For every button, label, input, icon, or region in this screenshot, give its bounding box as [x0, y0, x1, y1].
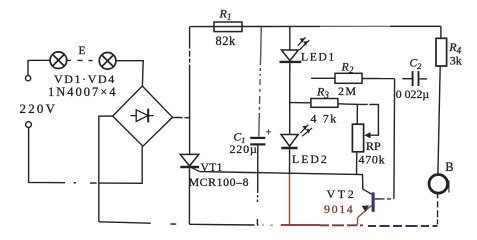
- svg-text:1N4007×4: 1N4007×4: [48, 85, 118, 99]
- wire R2 left lead (stub): [311, 77, 335, 79]
- lamp E1 (left bulb): [50, 52, 67, 69]
- LED1 light arrows: [298, 37, 309, 49]
- svg-text:220V: 220V: [20, 101, 58, 116]
- LED1: [280, 50, 302, 62]
- wire dashed base lead to RC node: [381, 198, 394, 200]
- bridge rectifier VD1-VD4 diamond: [113, 86, 173, 146]
- wire RP top lead: [356, 105, 358, 124]
- wire lamp E2 to bridge top: [116, 61, 143, 86]
- wire dashed vertical from top rail down to C1: [259, 27, 262, 137]
- wire C1 bottom down to rail: [257, 146, 259, 194]
- wire R4 bottom lead down to B: [438, 66, 440, 174]
- resistor R2: [335, 73, 362, 83]
- svg-text:3k: 3k: [450, 54, 462, 68]
- transistor VT2 base lead: [375, 198, 381, 200]
- buzzer B: [429, 175, 448, 194]
- wire R3 left lead to LED line: [290, 102, 311, 104]
- svg-text:B: B: [445, 160, 453, 174]
- wire left vertical x=190 from top corner down to VT1 anode: [189, 27, 191, 155]
- wire LED2 cathode down (dark part): [289, 149, 291, 174]
- svg-text:RP: RP: [366, 139, 381, 153]
- wire R3 right lead to node: [338, 103, 360, 106]
- svg-text:220µ: 220µ: [230, 142, 258, 156]
- svg-text:E: E: [79, 45, 86, 57]
- svg-text:LED1: LED1: [301, 50, 336, 64]
- wire VT1 cathode down to bottom rail: [188, 168, 190, 224]
- bottom rail blue dashes to B: [368, 225, 438, 227]
- svg-text:MCR100–8: MCR100–8: [189, 175, 250, 189]
- terminal 1: [26, 76, 31, 81]
- svg-text:+: +: [266, 127, 272, 138]
- svg-text:LED2: LED2: [292, 152, 329, 166]
- svg-text:9014: 9014: [324, 202, 354, 216]
- bottom rail middle solid segment: [189, 223, 254, 226]
- wire C2 left lead: [402, 78, 412, 80]
- lamp E2 (right bulb): [99, 53, 116, 70]
- wire R4 top lead: [440, 26, 442, 38]
- terminal 2: [26, 122, 32, 128]
- wire VT1 gate to VT2 collector (long horizontal): [200, 172, 372, 195]
- wire R2 right lead to corner: [362, 78, 395, 80]
- wire B bottom dashes to rail: [437, 193, 439, 226]
- svg-text:VT2: VT2: [327, 187, 357, 201]
- wire tick right of B: [448, 181, 450, 193]
- LED2 light arrows: [300, 125, 312, 137]
- wire terminal 2 down and right to bridge bottom (dash-dot): [29, 128, 65, 183]
- transistor VT2 base bar: [372, 192, 375, 211]
- resistor R1: [214, 22, 242, 32]
- svg-text:470k: 470k: [359, 152, 386, 166]
- capacitor C2 0.022u: [413, 71, 419, 86]
- wire node right and down to RP wiper: [360, 104, 379, 135]
- wire from terminal 1 to lamp E1: [28, 60, 50, 75]
- svg-text:82k: 82k: [216, 34, 237, 48]
- wire LED1 anode from top rail: [289, 27, 291, 51]
- resistor R4: [436, 38, 447, 66]
- bottom rail dark red dashes: [320, 224, 363, 226]
- wire vertical down to VT2 base: [393, 79, 396, 199]
- bottom rail left solid segment: [99, 222, 151, 223]
- svg-text:4 7k: 4 7k: [311, 112, 338, 126]
- LED2: [281, 135, 298, 149]
- capacitor C1 220u: [250, 138, 265, 145]
- wire bridge left corner to left bottom vertical: [99, 116, 113, 222]
- wire dashed between lamps: [67, 59, 99, 61]
- potentiometer RP: [352, 124, 363, 152]
- wire LED2 cathode to rail (red part): [289, 174, 291, 224]
- svg-text:0 022µ: 0 022µ: [396, 87, 430, 101]
- svg-text:2M: 2M: [338, 84, 357, 98]
- bottom rail faint segment: [262, 224, 281, 226]
- wire bridge right corner to x=190 vertical: [173, 116, 190, 118]
- resistor R3: [311, 99, 338, 108]
- thyristor VT1 MCR100-8: [180, 154, 199, 171]
- wire top rail from R1 left corner to R4: [190, 25, 320, 27]
- wire LED1 cathode to LED2 anode: [289, 63, 291, 134]
- RP wiper arrow: [364, 132, 370, 138]
- bottom rail red segment at LED2 junction: [281, 224, 320, 226]
- wire C2 right lead: [420, 78, 427, 80]
- bottom rail short dash after C1: [257, 224, 259, 226]
- transistor VT2 emitter with arrow: [357, 205, 371, 225]
- wire RP bottom lead to gate wire: [356, 152, 358, 175]
- bottom rail small dash: [170, 223, 176, 225]
- bridge internal diode: [131, 109, 154, 123]
